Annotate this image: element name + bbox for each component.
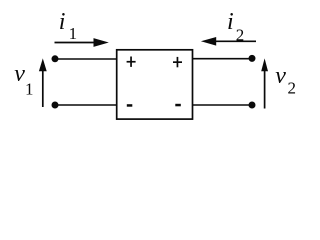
svg-text:v: v — [275, 63, 286, 89]
terminal node port2 bottom — [249, 102, 256, 109]
svg-text:1: 1 — [69, 24, 78, 43]
voltage arrow v2 — [261, 58, 268, 108]
svg-text:2: 2 — [288, 78, 297, 97]
svg-text:i: i — [59, 9, 66, 35]
wire port1 top — [55, 58, 117, 60]
terminal node port1 bottom — [52, 102, 59, 109]
label v1 — [14, 61, 33, 99]
label i1 — [59, 9, 77, 43]
polarity - port 1 — [127, 104, 133, 107]
svg-text:2: 2 — [236, 25, 245, 44]
two-port network box — [117, 50, 193, 119]
terminal node port2 top — [249, 55, 256, 62]
polarity - port 2 — [175, 104, 181, 107]
current arrow i1 — [55, 38, 109, 47]
wire port2 bottom — [193, 104, 253, 106]
current arrow i2 — [201, 37, 256, 46]
polarity + port 2 — [173, 57, 182, 67]
terminal node port1 top — [52, 55, 59, 62]
polarity + port 1 — [127, 57, 136, 67]
label i2 — [227, 9, 244, 44]
svg-text:1: 1 — [25, 80, 34, 99]
wire port1 bottom — [55, 104, 117, 106]
svg-text:v: v — [14, 61, 25, 87]
label v2 — [275, 63, 296, 97]
wire port2 top — [193, 58, 253, 60]
svg-text:i: i — [227, 9, 234, 35]
voltage arrow v1 — [39, 58, 47, 107]
